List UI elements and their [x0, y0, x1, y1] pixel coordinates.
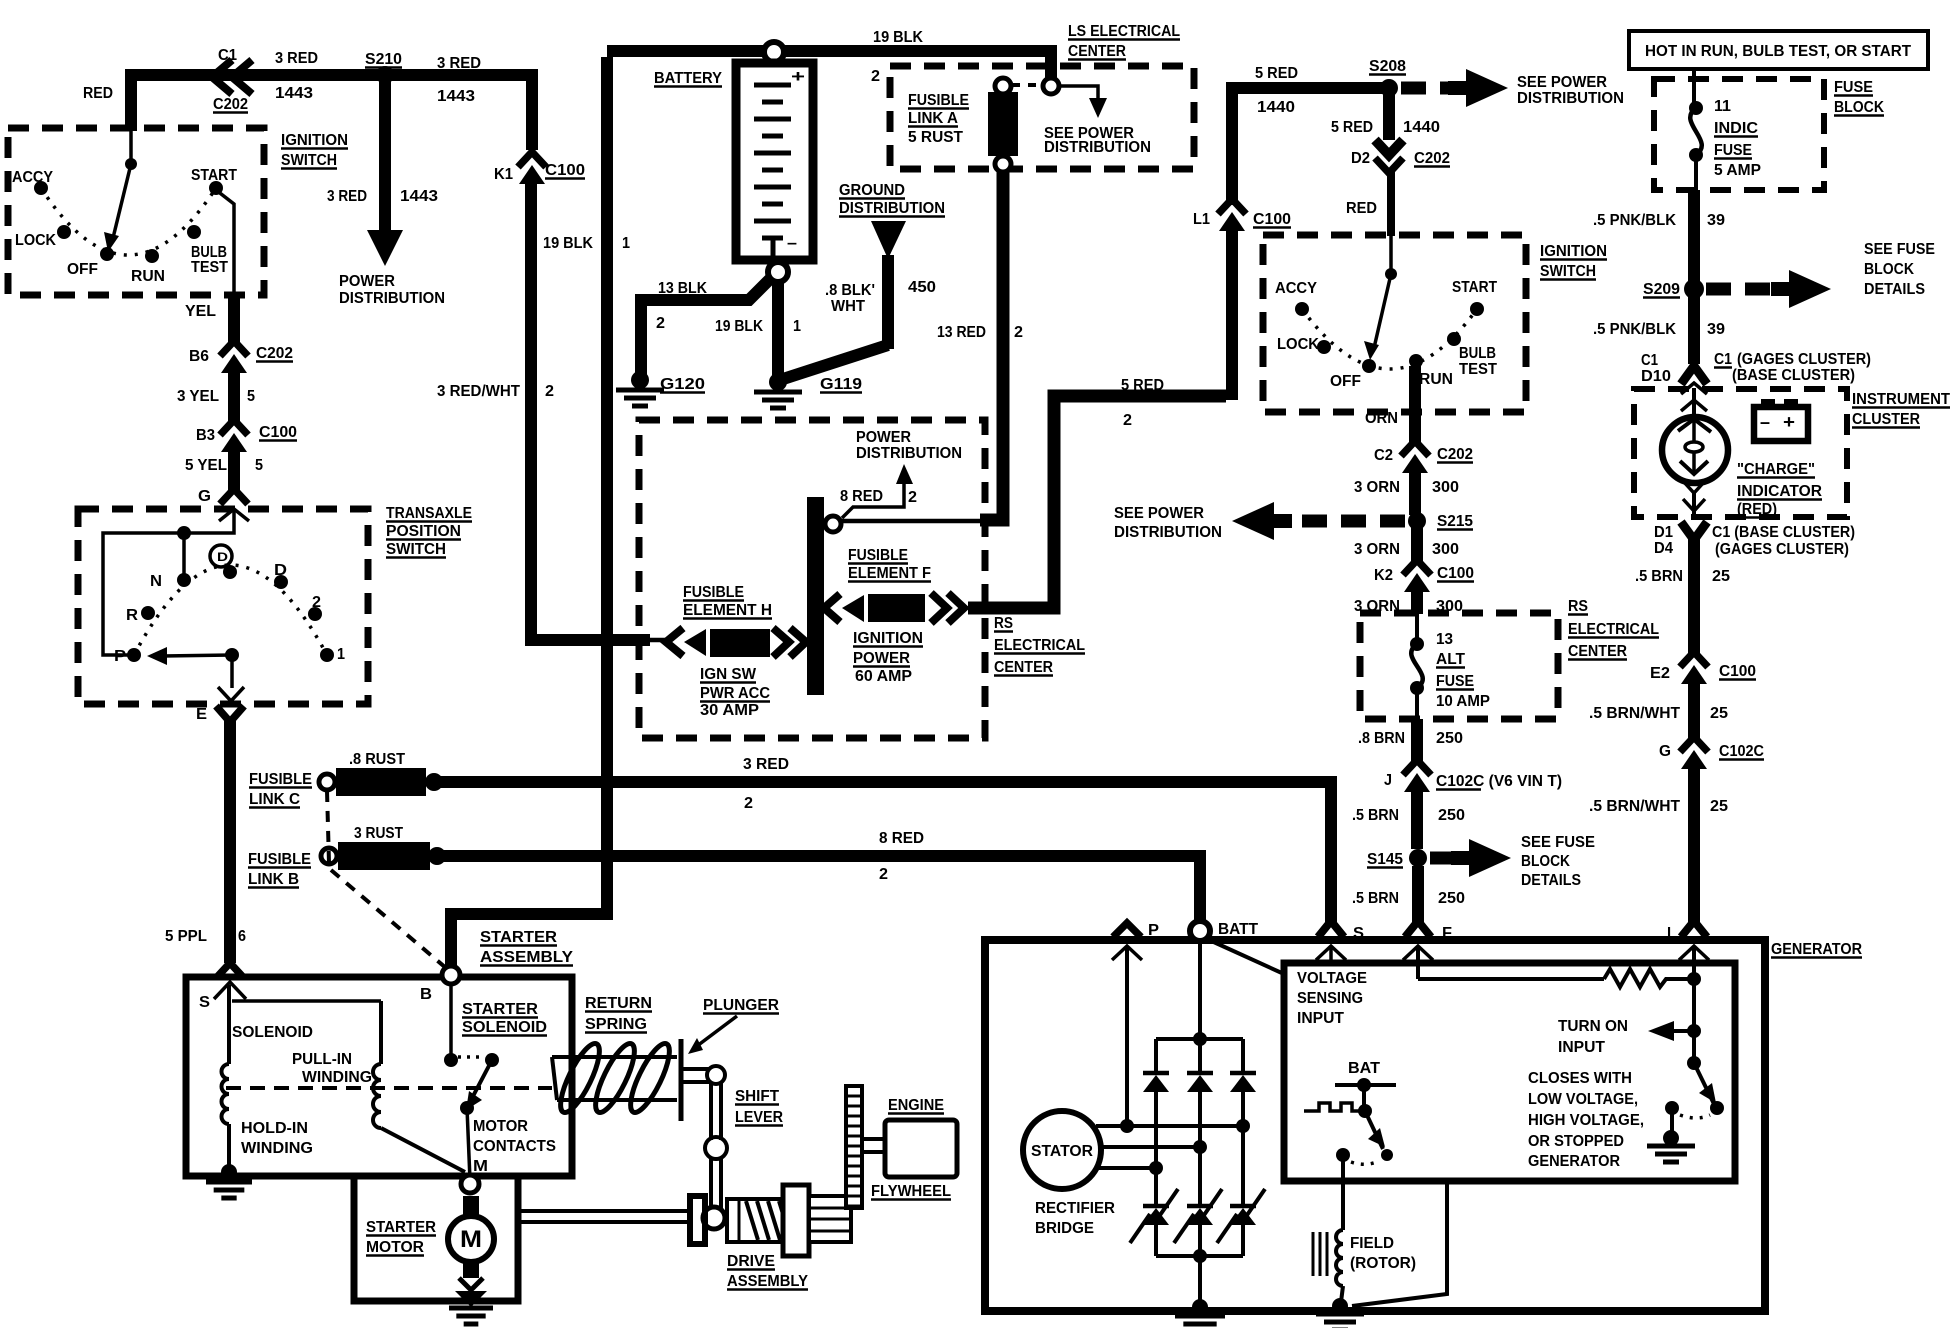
wire: 5 RED 2 from L1 C100 to element F [968, 396, 1226, 608]
indic fuse 5 amp [1692, 69, 1696, 105]
svg-text:+: + [791, 67, 805, 86]
connector C1 D10 Y [1681, 366, 1707, 384]
svg-text:1443: 1443 [275, 85, 313, 102]
svg-text:TEST: TEST [191, 259, 228, 276]
svg-text:C100: C100 [1253, 211, 1291, 228]
svg-text:2: 2 [545, 383, 554, 400]
field rotor [1341, 1155, 1345, 1230]
svg-text:TURN ON: TURN ON [1558, 1018, 1628, 1035]
svg-text:2: 2 [1123, 412, 1132, 429]
fusible link A [995, 78, 1011, 94]
svg-text:IGN SW: IGN SW [700, 666, 757, 683]
svg-text:C1 (BASE CLUSTER): C1 (BASE CLUSTER) [1712, 524, 1855, 541]
svg-text:DISTRIBUTION: DISTRIBUTION [1044, 139, 1151, 156]
svg-text:HOT IN RUN, BULB TEST, OR STA: HOT IN RUN, BULB TEST, OR START [1645, 43, 1911, 60]
svg-text:SENSING: SENSING [1297, 990, 1363, 1007]
battery icon [1761, 399, 1775, 409]
svg-text:POWER: POWER [856, 429, 911, 446]
svg-text:25: 25 [1710, 798, 1728, 815]
svg-text:.5 BRN/WHT: .5 BRN/WHT [1589, 798, 1680, 815]
svg-text:WHT: WHT [831, 298, 865, 315]
svg-text:11: 11 [1714, 98, 1731, 115]
svg-text:450: 450 [908, 279, 936, 296]
avalanche diode slashes [1130, 1214, 1150, 1243]
splice S210 [376, 66, 394, 84]
svg-text:LOW VOLTAGE,: LOW VOLTAGE, [1528, 1091, 1638, 1108]
svg-text:DRIVE: DRIVE [727, 1253, 775, 1270]
svg-text:L1: L1 [1193, 211, 1210, 228]
svg-text:LINK C: LINK C [249, 791, 300, 808]
svg-text:LINK B: LINK B [248, 871, 299, 888]
svg-text:N: N [150, 573, 162, 590]
svg-text:CLUSTER: CLUSTER [1852, 411, 1920, 428]
see fuse block details arrow right [1430, 852, 1451, 865]
switch 2 arm [1389, 236, 1393, 272]
svg-text:S215: S215 [1437, 513, 1473, 530]
wire: 13 BLK 2 to G120 [641, 279, 770, 376]
svg-text:DISTRIBUTION: DISTRIBUTION [1517, 90, 1624, 107]
svg-text:.5 BRN: .5 BRN [1352, 890, 1399, 907]
turn on input tap [1687, 1024, 1701, 1038]
svg-text:FUSE: FUSE [1714, 142, 1752, 159]
svg-text:INDICATOR: INDICATOR [1737, 483, 1822, 500]
svg-text:2: 2 [908, 489, 917, 506]
svg-text:WINDING: WINDING [302, 1069, 372, 1086]
wire L down [1692, 948, 1696, 1063]
svg-text:SOLENOID: SOLENOID [232, 1024, 313, 1041]
wire from F to resistor to L [1416, 948, 1420, 979]
svg-text:3 RUST: 3 RUST [354, 825, 403, 842]
svg-text:250: 250 [1438, 807, 1465, 824]
rectifier bridge wiring [1207, 939, 1284, 974]
svg-text:GENERATOR: GENERATOR [1771, 941, 1862, 958]
svg-text:SOLENOID: SOLENOID [462, 1019, 547, 1036]
connector B6 C202 [220, 341, 248, 356]
wire: .8 BLK/WHT 450 [882, 255, 894, 349]
svg-text:INPUT: INPUT [1297, 1010, 1344, 1027]
svg-text:1440: 1440 [1257, 99, 1295, 116]
svg-text:B3: B3 [196, 427, 215, 444]
wire .8 BRN 250 [1411, 719, 1423, 763]
svg-text:250: 250 [1438, 890, 1465, 907]
svg-text:BRIDGE: BRIDGE [1035, 1220, 1094, 1237]
svg-text:ELECTRICAL: ELECTRICAL [994, 637, 1085, 654]
fusible link B [321, 848, 337, 864]
svg-text:250: 250 [1436, 730, 1463, 747]
svg-text:1: 1 [622, 235, 630, 252]
RS electrical center dashed box [639, 420, 985, 738]
svg-text:START: START [191, 167, 237, 184]
connector K2 C100 [1403, 560, 1431, 575]
wire: 19 BLK battery positive feed [451, 57, 607, 967]
svg-text:RS: RS [994, 615, 1013, 632]
svg-text:C102C (V6 VIN T): C102C (V6 VIN T) [1436, 773, 1562, 790]
svg-text:G: G [198, 488, 211, 505]
svg-text:3 RED: 3 RED [437, 55, 481, 72]
svg-text:2: 2 [1014, 324, 1023, 341]
svg-text:2: 2 [312, 594, 321, 611]
wire: 8 RED 2 long run to generator BATT [441, 856, 1200, 920]
svg-text:START: START [1452, 279, 1497, 296]
voltage regulator box [1284, 963, 1735, 1181]
connector L [1681, 921, 1707, 937]
avalanche diode slashes [1174, 1214, 1194, 1243]
ground G120 [631, 371, 649, 389]
svg-text:CENTER: CENTER [1068, 43, 1126, 60]
wiper arm to P [225, 648, 239, 662]
svg-text:"CHARGE": "CHARGE" [1737, 461, 1815, 478]
svg-text:G: G [1659, 743, 1671, 760]
see power distribution arrow inside LS center [1059, 86, 1098, 98]
see power distribution arrow left [1292, 515, 1405, 528]
svg-text:DISTRIBUTION: DISTRIBUTION [839, 200, 945, 217]
splice S208 [1380, 79, 1398, 97]
svg-text:FLYWHEEL: FLYWHEEL [871, 1183, 951, 1200]
helical spline [727, 1199, 787, 1242]
wire YEL to B6 [228, 293, 240, 344]
svg-text:6: 6 [238, 928, 246, 945]
svg-text:LS ELECTRICAL: LS ELECTRICAL [1068, 23, 1180, 40]
svg-text:19 BLK: 19 BLK [543, 235, 593, 252]
stator phase lines [1096, 1124, 1243, 1128]
svg-text:D10: D10 [1641, 368, 1671, 385]
connector C1 C202 (double chevron) [212, 60, 232, 94]
svg-text:5 RUST: 5 RUST [908, 129, 963, 146]
svg-text:BATTERY: BATTERY [654, 70, 722, 87]
svg-text:FIELD: FIELD [1350, 1235, 1394, 1252]
svg-text:5 YEL: 5 YEL [185, 457, 227, 474]
svg-text:VOLTAGE: VOLTAGE [1297, 970, 1367, 987]
wire below indicator [1683, 481, 1705, 493]
svg-text:5 RED: 5 RED [1255, 65, 1298, 82]
svg-text:BLOCK: BLOCK [1834, 99, 1884, 116]
connector G chevron [220, 489, 248, 504]
shift lever ball [703, 1207, 725, 1229]
svg-text:19 BLK: 19 BLK [715, 318, 763, 335]
svg-text:19 BLK: 19 BLK [873, 29, 923, 46]
svg-text:(GAGES CLUSTER): (GAGES CLUSTER) [1737, 351, 1871, 368]
svg-text:SEE FUSE: SEE FUSE [1864, 241, 1935, 258]
svg-text:IGNITION: IGNITION [853, 630, 923, 647]
svg-text:D: D [274, 562, 287, 579]
svg-text:YEL: YEL [185, 303, 216, 320]
svg-text:C1: C1 [218, 47, 237, 64]
entry chevrons [1681, 383, 1707, 394]
motor contacts [449, 984, 453, 1056]
svg-text:BLOCK: BLOCK [1521, 853, 1570, 870]
splice S145 [1409, 849, 1427, 867]
svg-text:1443: 1443 [437, 88, 475, 105]
ALT fuse [1415, 613, 1419, 641]
svg-text:FUSIBLE: FUSIBLE [249, 771, 312, 788]
svg-text:2: 2 [879, 866, 888, 883]
svg-text:5 RED: 5 RED [1331, 119, 1373, 136]
svg-text:CLOSES WITH: CLOSES WITH [1528, 1070, 1632, 1087]
connector E2 C100 [1680, 652, 1708, 667]
svg-text:13: 13 [1436, 631, 1453, 648]
svg-text:LOCK: LOCK [15, 232, 56, 249]
contact dots arc [41, 188, 216, 255]
connector B3 C100 [220, 420, 248, 435]
svg-text:STARTER: STARTER [462, 1001, 538, 1018]
splice S209 [1684, 279, 1704, 299]
svg-text:PWR ACC: PWR ACC [700, 685, 770, 702]
svg-text:MOTOR: MOTOR [366, 1239, 424, 1256]
regulator switch right [1687, 1056, 1701, 1070]
svg-text:3 RED: 3 RED [275, 50, 318, 67]
connector P [1113, 923, 1141, 937]
svg-text:.5 BRN/WHT: .5 BRN/WHT [1589, 705, 1680, 722]
svg-text:ENGINE: ENGINE [888, 1097, 944, 1114]
svg-text:RUN: RUN [131, 268, 165, 285]
svg-text:39: 39 [1707, 321, 1725, 338]
svg-text:+: + [1783, 412, 1795, 432]
svg-text:RECTIFIER: RECTIFIER [1035, 1200, 1115, 1217]
svg-text:R: R [126, 607, 138, 624]
svg-text:E: E [196, 706, 207, 723]
svg-text:C102C: C102C [1719, 743, 1764, 760]
svg-text:SEE FUSE: SEE FUSE [1521, 834, 1595, 851]
svg-text:SPRING: SPRING [585, 1016, 647, 1033]
svg-text:60 AMP: 60 AMP [855, 668, 912, 685]
svg-text:TRANSAXLE: TRANSAXLE [386, 505, 472, 522]
svg-text:5 PPL: 5 PPL [165, 928, 207, 945]
svg-text:S210: S210 [365, 51, 402, 68]
svg-text:SEE POWER: SEE POWER [1517, 74, 1607, 91]
svg-text:–: – [1760, 412, 1770, 432]
svg-text:3 RED: 3 RED [743, 756, 789, 773]
wire E out of switch [230, 655, 234, 688]
svg-text:ASSEMBLY: ASSEMBLY [727, 1273, 808, 1290]
pull-in winding [232, 999, 381, 1003]
svg-text:G119: G119 [820, 376, 862, 393]
svg-text:FUSIBLE: FUSIBLE [248, 851, 311, 868]
svg-text:RETURN: RETURN [585, 995, 652, 1012]
M terminal circle [461, 1175, 479, 1193]
svg-text:LEVER: LEVER [735, 1109, 783, 1126]
svg-text:OR STOPPED: OR STOPPED [1528, 1133, 1624, 1150]
svg-text:G120: G120 [660, 376, 705, 393]
svg-text:S145: S145 [1367, 851, 1403, 868]
svg-text:C1: C1 [1641, 352, 1658, 369]
plunger [679, 1039, 684, 1121]
connector F [1405, 921, 1431, 937]
svg-text:K1: K1 [494, 166, 513, 183]
svg-text:S: S [199, 994, 210, 1011]
svg-text:BAT: BAT [1348, 1060, 1380, 1077]
rectifier bottom bus to ground [1156, 1254, 1243, 1258]
svg-text:BULB: BULB [1459, 345, 1496, 362]
svg-text:LOCK: LOCK [1277, 336, 1319, 353]
svg-text:OFF: OFF [1330, 373, 1361, 390]
svg-text:B: B [420, 986, 432, 1003]
svg-text:INDIC: INDIC [1714, 120, 1758, 137]
svg-text:.5 PNK/BLK: .5 PNK/BLK [1593, 321, 1676, 338]
stator [1023, 1111, 1101, 1189]
svg-text:C100: C100 [545, 162, 585, 179]
svg-text:C202: C202 [256, 345, 293, 362]
svg-text:C202: C202 [213, 96, 248, 113]
ignition switch 2 dashed box [1263, 235, 1526, 412]
svg-text:MOTOR: MOTOR [473, 1118, 528, 1135]
svg-text:IGNITION: IGNITION [281, 132, 348, 149]
svg-text:L: L [1667, 925, 1676, 942]
svg-text:.8 BRN: .8 BRN [1358, 730, 1405, 747]
svg-text:DETAILS: DETAILS [1521, 872, 1581, 889]
thin wire into bus [842, 519, 980, 524]
wire: 5 RED 1440 down to D2 C202 [1383, 94, 1395, 140]
wire 5 PPL 6 down to starter [224, 720, 236, 963]
hot in run box [1629, 31, 1928, 69]
svg-text:C100: C100 [1437, 565, 1474, 582]
svg-text:13 BLK: 13 BLK [658, 280, 707, 297]
wire: 3 RED 1443 to power distribution [379, 80, 391, 232]
svg-text:OFF: OFF [67, 261, 98, 278]
svg-text:1443: 1443 [400, 188, 438, 205]
svg-text:PLUNGER: PLUNGER [703, 997, 779, 1014]
svg-text:BLOCK: BLOCK [1864, 261, 1914, 278]
connector K1 C100 [518, 152, 546, 167]
svg-text:1440: 1440 [1403, 119, 1440, 136]
svg-text:3 RED: 3 RED [327, 188, 367, 205]
connector J C102C [1403, 760, 1431, 775]
starter motor box [354, 1176, 518, 1301]
diodes [1154, 1039, 1158, 1073]
wire: 3 RED 2 long run to generator S [440, 782, 1331, 923]
svg-text:3 RED/WHT: 3 RED/WHT [437, 383, 520, 400]
wire from regulator box bottom to ground [1352, 1181, 1447, 1306]
svg-text:.8 BLK': .8 BLK' [825, 282, 875, 299]
svg-text:SWITCH: SWITCH [386, 541, 446, 558]
fusible link C [319, 774, 335, 790]
svg-text:C100: C100 [1719, 663, 1756, 680]
svg-text:POSITION: POSITION [386, 523, 461, 540]
svg-text:DETAILS: DETAILS [1864, 281, 1925, 298]
svg-text:ASSEMBLY: ASSEMBLY [480, 949, 573, 966]
see fuse block details arrow right [1706, 283, 1771, 296]
connector D1 D4 Y [1681, 522, 1707, 540]
svg-text:DISTRIBUTION: DISTRIBUTION [339, 290, 445, 307]
svg-text:ELEMENT F: ELEMENT F [848, 565, 931, 582]
svg-text:M: M [460, 1226, 482, 1253]
svg-text:J: J [1384, 772, 1392, 789]
svg-text:8 RED: 8 RED [840, 488, 883, 505]
connector C2 C202 [1401, 441, 1429, 456]
svg-text:D: D [217, 550, 228, 564]
svg-text:(ROTOR): (ROTOR) [1350, 1255, 1416, 1272]
svg-text:POWER: POWER [853, 650, 910, 667]
svg-text:FUSIBLE: FUSIBLE [683, 584, 744, 601]
wire: 19 BLK 1 from K1 down to fusible element H [531, 182, 650, 640]
svg-text:.5 BRN: .5 BRN [1635, 568, 1683, 585]
wire 3 ORN 300 [1411, 527, 1423, 563]
svg-text:STARTER: STARTER [366, 1219, 436, 1236]
mechanical dashed link [226, 1086, 552, 1090]
svg-text:PULL-IN: PULL-IN [292, 1051, 352, 1068]
svg-text:DISTRIBUTION: DISTRIBUTION [1114, 524, 1222, 541]
svg-text:C202: C202 [1437, 446, 1473, 463]
connector E vee [216, 706, 244, 722]
starter solenoid box [186, 977, 572, 1176]
svg-text:E2: E2 [1650, 665, 1670, 682]
svg-text:8 RED: 8 RED [879, 830, 924, 847]
svg-text:D2: D2 [1351, 150, 1370, 167]
svg-text:3 ORN: 3 ORN [1354, 479, 1400, 496]
connector S [1318, 921, 1344, 937]
connector S fork at starter [217, 963, 243, 977]
svg-text:DISTRIBUTION: DISTRIBUTION [856, 445, 962, 462]
svg-text:SEE POWER: SEE POWER [1114, 505, 1204, 522]
svg-text:2: 2 [871, 68, 880, 85]
svg-text:C1: C1 [1714, 351, 1732, 368]
svg-text:CENTER: CENTER [1568, 643, 1627, 660]
svg-text:.5 PNK/BLK: .5 PNK/BLK [1593, 212, 1676, 229]
svg-text:5 AMP: 5 AMP [1714, 162, 1761, 179]
svg-text:RS: RS [1568, 598, 1588, 615]
entry chevron thin [219, 509, 249, 521]
drive shaft [518, 1209, 690, 1213]
flywheel [846, 1086, 862, 1208]
power distribution arrow up [896, 464, 913, 484]
wire: 3 RED 1443 main horizontal top-left [131, 75, 532, 150]
svg-text:S: S [1353, 925, 1364, 942]
svg-text:C202: C202 [1414, 150, 1450, 167]
RS electrical center 2 dashed box [1360, 613, 1558, 719]
svg-text:–: – [787, 233, 797, 252]
svg-text:5: 5 [247, 388, 255, 405]
svg-text:1: 1 [793, 318, 801, 335]
svg-text:D1: D1 [1654, 524, 1673, 541]
svg-text:POWER: POWER [339, 273, 395, 290]
connector L1 C100 [1218, 199, 1246, 214]
svg-text:SWITCH: SWITCH [1540, 263, 1596, 280]
svg-text:ELEMENT H: ELEMENT H [683, 602, 772, 619]
switch arm from C202 wire [129, 131, 133, 161]
svg-text:RED: RED [83, 85, 113, 102]
svg-text:TEST: TEST [1459, 361, 1497, 378]
charge indicator lamp circle [1662, 417, 1728, 483]
svg-text:ACCY: ACCY [12, 169, 53, 186]
bus circle [825, 516, 841, 532]
svg-text:1: 1 [337, 646, 345, 663]
svg-text:SHIFT: SHIFT [735, 1088, 779, 1105]
svg-text:.8 RUST: .8 RUST [349, 751, 405, 768]
power distribution arrow down [367, 230, 403, 266]
svg-text:GROUND: GROUND [839, 182, 905, 199]
fuse block dashed box [1654, 79, 1824, 190]
engine [885, 1120, 957, 1177]
svg-text:GENERATOR: GENERATOR [1528, 1153, 1620, 1170]
svg-text:25: 25 [1710, 705, 1728, 722]
svg-text:B6: B6 [189, 348, 209, 365]
svg-text:25: 25 [1712, 568, 1730, 585]
svg-text:FUSE: FUSE [1834, 79, 1873, 96]
wire RED into ignition switch 2 [1387, 172, 1395, 236]
generator box [985, 940, 1765, 1311]
avalanche diode slashes [1217, 1214, 1237, 1243]
wire: 19 BLK 1 to G119 [772, 281, 784, 378]
wire: 13 RED 2 from link A down to RS center [980, 171, 1003, 520]
svg-text:WINDING: WINDING [241, 1140, 313, 1157]
svg-text:10 AMP: 10 AMP [1436, 693, 1490, 710]
svg-text:K2: K2 [1374, 567, 1393, 584]
svg-text:FUSIBLE: FUSIBLE [908, 92, 969, 109]
LS electrical center dashed box [890, 66, 1194, 169]
pin circle 2 [1043, 78, 1059, 94]
svg-text:C2: C2 [1374, 447, 1393, 464]
svg-text:FUSE: FUSE [1436, 673, 1474, 690]
svg-text:P: P [114, 648, 126, 665]
